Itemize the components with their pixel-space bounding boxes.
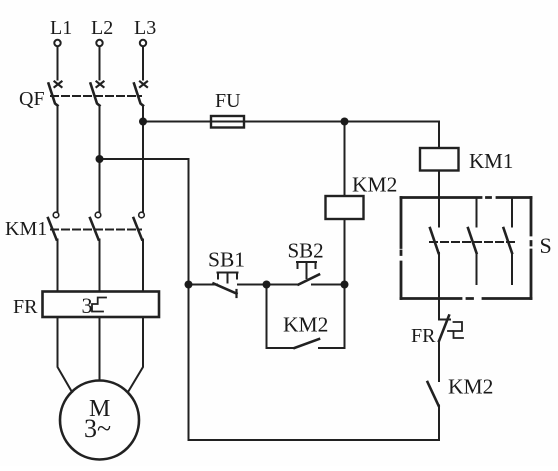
- svg-text:SB2: SB2: [288, 239, 324, 263]
- svg-text:KM1: KM1: [469, 149, 513, 173]
- svg-text:L2: L2: [91, 17, 113, 39]
- svg-text:3: 3: [82, 293, 93, 318]
- svg-text:KM2: KM2: [352, 173, 397, 197]
- svg-text:FR: FR: [411, 325, 436, 347]
- svg-text:QF: QF: [19, 88, 45, 110]
- svg-text:KM2: KM2: [283, 313, 328, 337]
- svg-text:L1: L1: [50, 17, 72, 39]
- svg-text:3~: 3~: [84, 414, 111, 443]
- svg-text:SB1: SB1: [208, 248, 245, 272]
- svg-text:FU: FU: [215, 90, 241, 112]
- svg-text:S: S: [540, 233, 552, 258]
- svg-text:FR: FR: [13, 296, 38, 318]
- svg-text:KM2: KM2: [448, 375, 493, 399]
- svg-text:L3: L3: [134, 17, 156, 39]
- svg-text:KM1: KM1: [5, 218, 47, 240]
